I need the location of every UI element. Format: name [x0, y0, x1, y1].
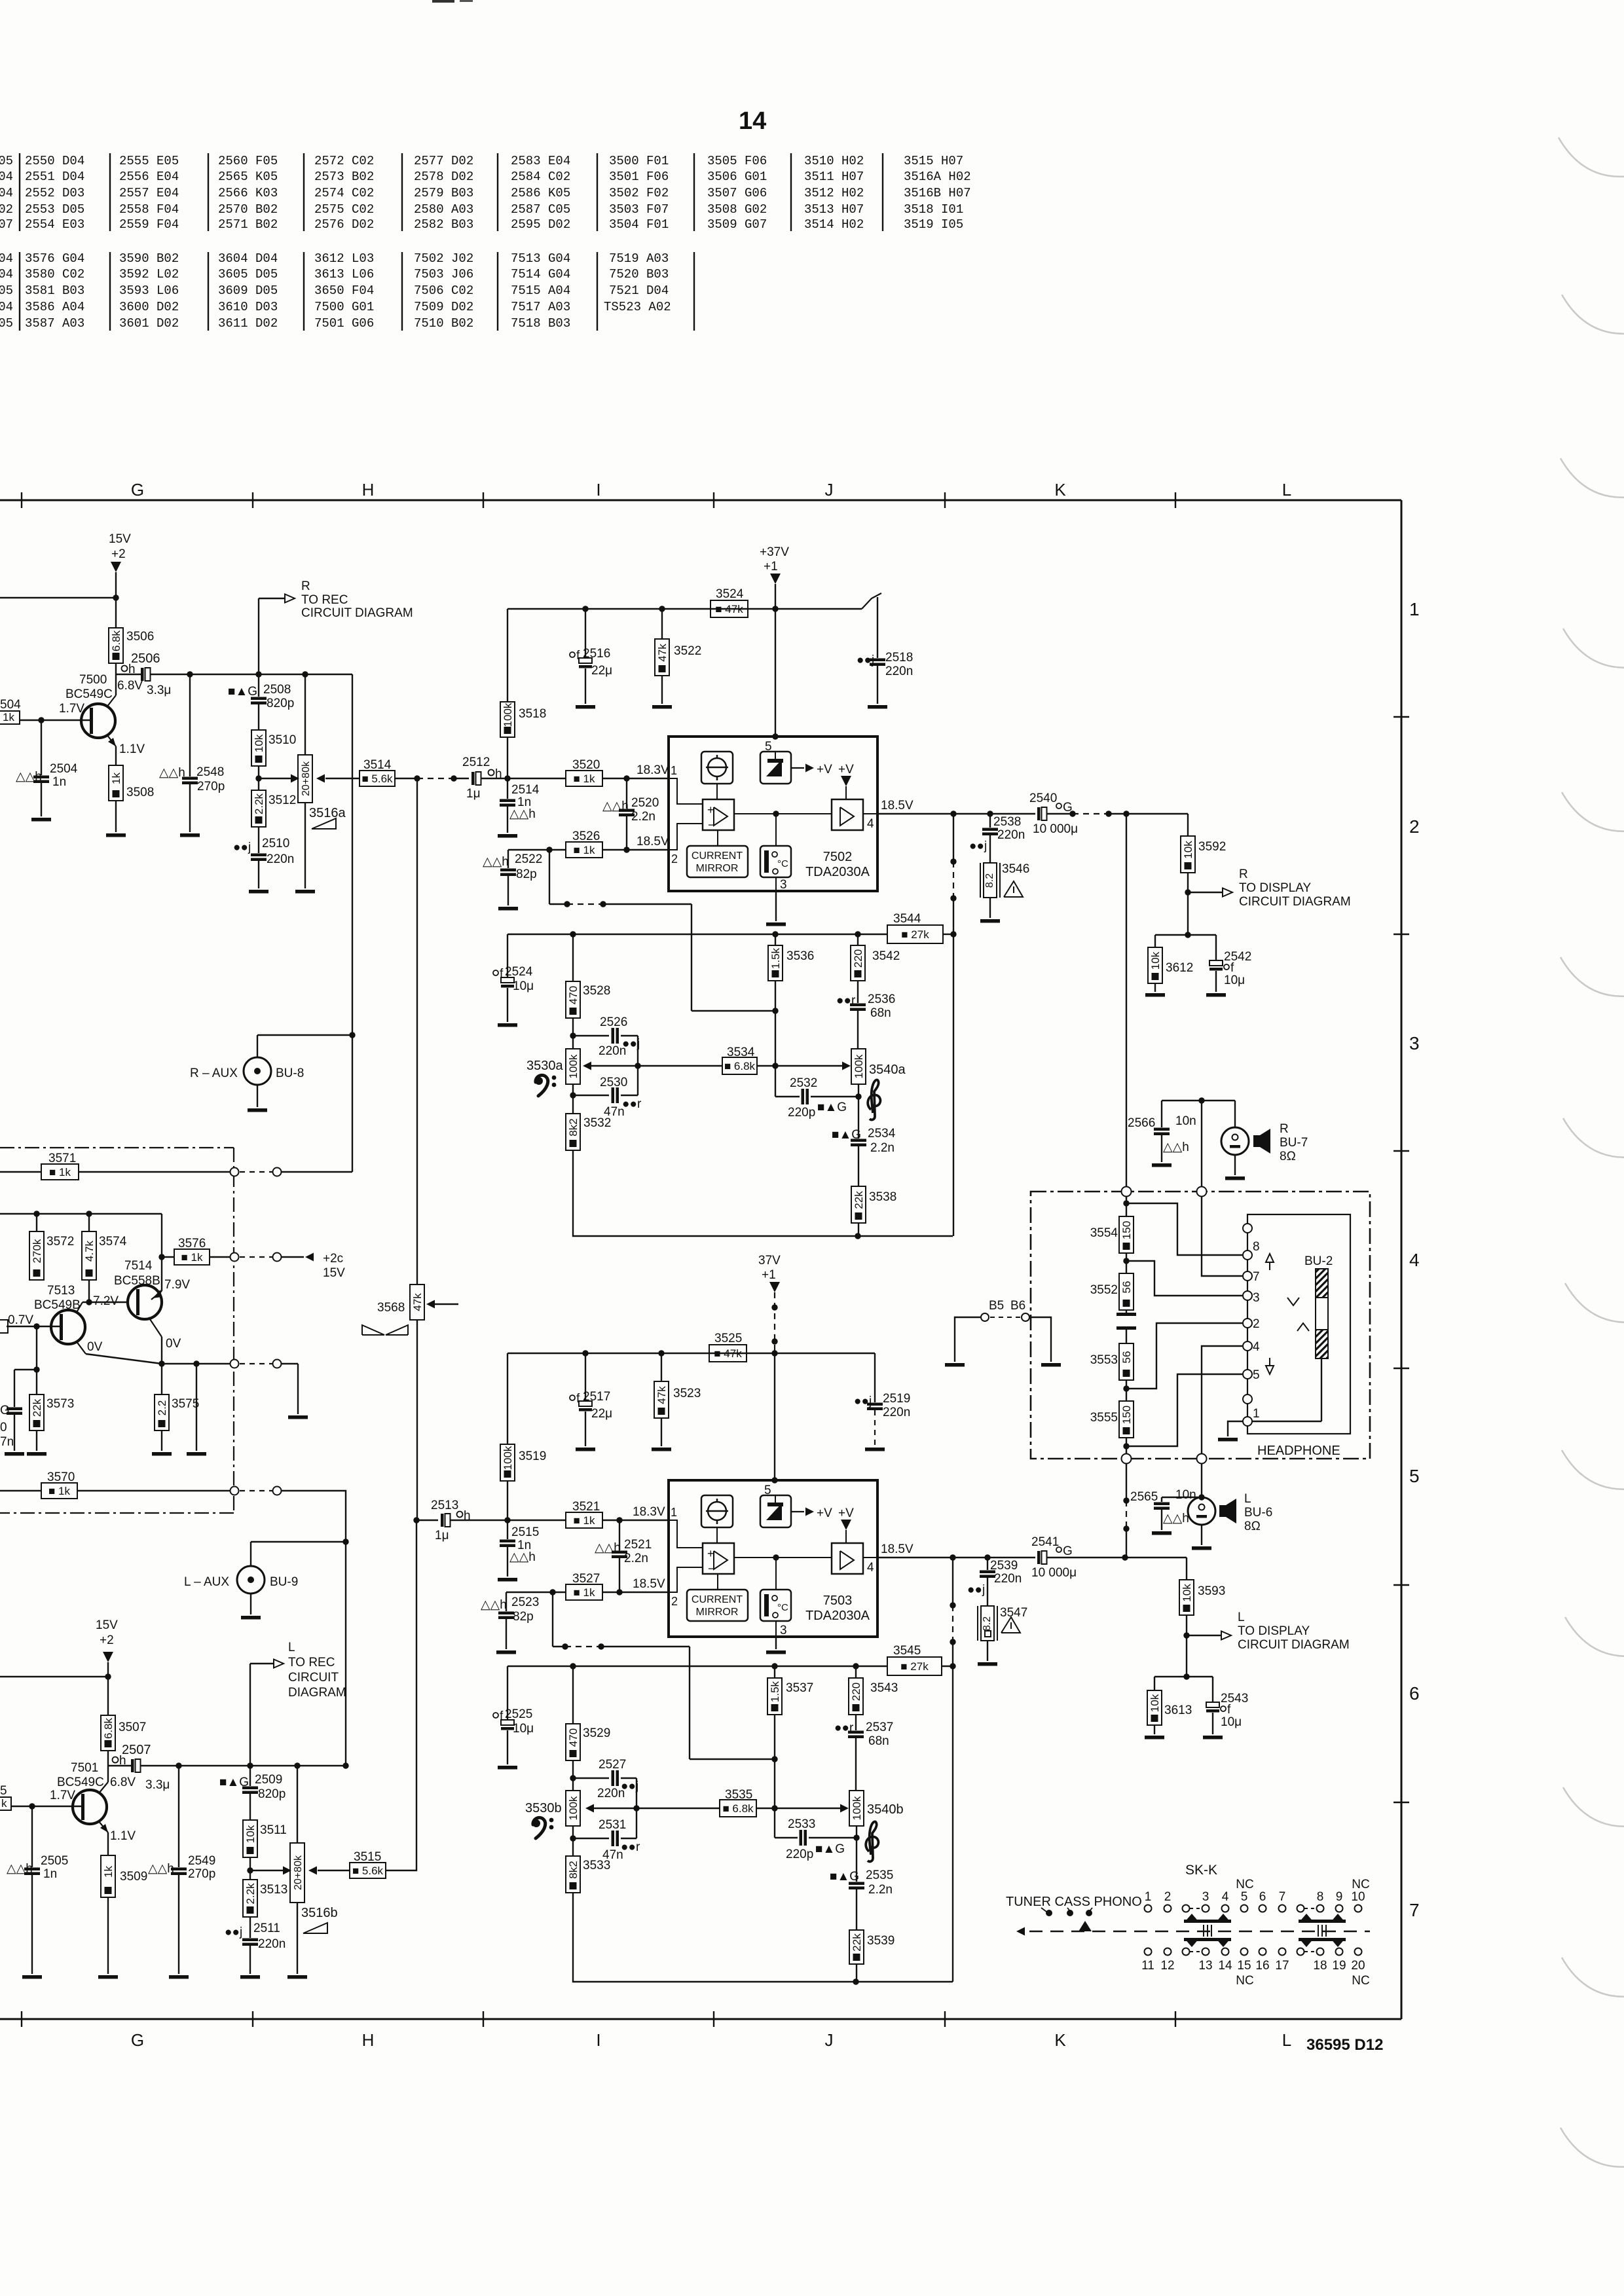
switch contacts 3576 row / +2c 15V: [231, 1253, 239, 1262]
svg-text:L: L: [1282, 480, 1291, 500]
arrow R to rec circuit diagram: [258, 598, 259, 674]
svg-text:10k: 10k: [1181, 1584, 1193, 1602]
svg-text:3519 I05: 3519 I05: [904, 217, 963, 232]
svg-text:L – AUX: L – AUX: [184, 1575, 229, 1589]
resistor 3612: [1154, 935, 1156, 947]
speaker icon R: [1253, 1135, 1260, 1147]
capacitor 2539: [987, 1558, 988, 1570]
svg-text:3538: 3538: [869, 1190, 896, 1204]
svg-text:3516a: 3516a: [309, 806, 346, 820]
svg-text:DIAGRAM: DIAGRAM: [288, 1686, 346, 1700]
wire emitter 7501: [98, 1821, 108, 1832]
svg-text:G: G: [0, 1404, 10, 1417]
svg-text:2550 D04: 2550 D04: [25, 154, 84, 168]
capacitor 2518 220n: [877, 597, 878, 658]
svg-text:3516A H02: 3516A H02: [904, 170, 971, 184]
svg-text:2583 E04: 2583 E04: [511, 154, 570, 168]
svg-text:3508 G02: 3508 G02: [707, 202, 767, 217]
svg-text:BU-6: BU-6: [1244, 1506, 1272, 1520]
resistor 3593: [1186, 1558, 1187, 1580]
capacitor 2540 10000u: [1037, 807, 1041, 820]
svg-text:+1: +1: [764, 560, 778, 574]
svg-text:■▲G: ■▲G: [817, 1101, 847, 1114]
svg-text:17: 17: [1275, 1959, 1289, 1973]
svg-text:6: 6: [1259, 1890, 1266, 1904]
wire 15V rail left: [0, 597, 116, 598]
svg-text:7501: 7501: [71, 1761, 98, 1775]
svg-text:3514: 3514: [363, 758, 392, 772]
svg-text:TUNER CASS PHONO: TUNER CASS PHONO: [1006, 1895, 1142, 1909]
svg-text:7503 J06: 7503 J06: [414, 267, 473, 282]
node 3553/3555: [1126, 1380, 1127, 1401]
wire 3535 to 3540b with arrow: [756, 1808, 775, 1809]
svg-text:△△h: △△h: [483, 855, 509, 869]
resistor 3571 1k: [0, 1171, 41, 1173]
svg-text:3592: 3592: [1198, 840, 1226, 854]
svg-text:°C: °C: [777, 1602, 788, 1613]
svg-text:3576: 3576: [178, 1237, 206, 1250]
svg-text:8.2: 8.2: [984, 873, 995, 888]
svg-text:2557 E04: 2557 E04: [119, 186, 179, 200]
svg-text:3605 D05: 3605 D05: [218, 267, 278, 282]
long vertical from R preamp to BU-8: [352, 674, 353, 1172]
svg-text:220: 220: [850, 1683, 862, 1701]
svg-text:BU-9: BU-9: [270, 1575, 298, 1589]
svg-text:2506: 2506: [131, 651, 160, 666]
connector BU-8 R-AUX: [257, 1035, 258, 1057]
wire contact 1 to plug sleeve and ground: [1252, 1421, 1321, 1422]
jack contact circles: [1243, 1224, 1252, 1233]
potentiometer 3540a treble: [851, 1049, 866, 1084]
ramp symbol 3516a: [312, 818, 336, 829]
svg-text:●●j: ●●j: [967, 1583, 985, 1597]
svg-text:2579 B03: 2579 B03: [414, 186, 473, 200]
svg-text:22k: 22k: [853, 1191, 865, 1209]
svg-text:2526: 2526: [600, 1015, 627, 1029]
svg-text:3524: 3524: [716, 587, 744, 601]
svg-text:■▲G: ■▲G: [830, 1870, 859, 1884]
node 2565/BU-6: [1201, 1463, 1202, 1497]
svg-text:L: L: [1238, 1611, 1245, 1624]
svg-text:3516B H07: 3516B H07: [904, 186, 971, 200]
svg-text:2541: 2541: [1031, 1535, 1059, 1549]
svg-text:0: 0: [0, 1421, 7, 1434]
svg-text:820p: 820p: [267, 697, 294, 710]
supply rail 47k row (L): [507, 1353, 875, 1354]
box contacts top/bottom: [1122, 1187, 1132, 1197]
capacitor 2516 22u: [585, 609, 586, 658]
svg-text:2584 C02: 2584 C02: [511, 170, 570, 184]
svg-text:1.1V: 1.1V: [119, 742, 145, 756]
svg-text:7502: 7502: [823, 850, 853, 864]
svg-text:+V: +V: [838, 1506, 854, 1520]
svg-text:1.5k: 1.5k: [769, 1681, 781, 1702]
svg-text:R: R: [301, 579, 310, 593]
svg-text:7513: 7513: [47, 1284, 75, 1298]
svg-text:3600 D02: 3600 D02: [119, 300, 179, 314]
svg-text:15V: 15V: [96, 1618, 118, 1632]
transistor 7500 BC549C: [81, 704, 115, 738]
svg-text:3510 H02: 3510 H02: [804, 154, 864, 168]
svg-text:+V: +V: [838, 763, 854, 776]
wire +37V to pin 5: [775, 609, 776, 737]
svg-text:R: R: [1280, 1122, 1289, 1136]
svg-text:△△h: △△h: [509, 807, 536, 821]
svg-text:●●j: ●●j: [969, 839, 987, 853]
svg-text:2576 D02: 2576 D02: [314, 217, 374, 232]
switch contacts 3570 row: [231, 1487, 239, 1495]
capacitor 2520: [626, 778, 627, 809]
svg-text:3506 G01: 3506 G01: [707, 170, 767, 184]
svg-text:2571 B02: 2571 B02: [218, 217, 278, 232]
svg-text:3519: 3519: [519, 1449, 546, 1463]
jack switch A mark: [1297, 1323, 1309, 1331]
svg-text:2.2n: 2.2n: [631, 810, 655, 824]
svg-text:1μ: 1μ: [466, 787, 481, 801]
svg-text:100k: 100k: [567, 1796, 580, 1820]
svg-text:2578 D02: 2578 D02: [414, 170, 473, 184]
svg-text:2511: 2511: [253, 1922, 280, 1935]
svg-text:3511 H07: 3511 H07: [804, 170, 864, 184]
svg-text:+2: +2: [111, 547, 126, 561]
resistor 3523: [661, 1353, 662, 1381]
svg-text:3503 F07: 3503 F07: [609, 202, 669, 217]
svg-text:+1: +1: [762, 1268, 776, 1282]
svg-text:2575 C02: 2575 C02: [314, 202, 374, 217]
svg-text:2520: 2520: [631, 796, 659, 810]
svg-text:2559 F04: 2559 F04: [119, 217, 179, 232]
svg-text:2556 E04: 2556 E04: [119, 170, 179, 184]
svg-text:10μ: 10μ: [513, 979, 534, 993]
svg-text:3508: 3508: [126, 786, 154, 799]
svg-text:220n: 220n: [883, 1406, 910, 1419]
svg-text:2507: 2507: [122, 1743, 151, 1757]
svg-text:2552 D03: 2552 D03: [25, 186, 84, 200]
svg-text:22μ: 22μ: [591, 1407, 612, 1421]
svg-text:2532: 2532: [790, 1076, 817, 1090]
svg-text:3501 F06: 3501 F06: [609, 170, 669, 184]
resistor 3511: [243, 1820, 257, 1857]
svg-text:R – AUX: R – AUX: [190, 1066, 238, 1080]
svg-text:220n: 220n: [885, 665, 913, 678]
resistor 3576 1k: [158, 1254, 164, 1260]
wire main R preamp node: [150, 674, 352, 675]
svg-text:3539: 3539: [867, 1934, 895, 1948]
svg-text:2518: 2518: [885, 651, 913, 665]
switch contacts top row: [1145, 1905, 1152, 1912]
svg-text:2: 2: [671, 1595, 678, 1608]
svg-text:■▲G: ■▲G: [219, 1776, 249, 1789]
svg-text:1: 1: [671, 1506, 677, 1519]
svg-text:8k2: 8k2: [567, 1861, 580, 1878]
svg-text:3513: 3513: [260, 1883, 287, 1897]
svg-text:3500 F01: 3500 F01: [609, 154, 669, 168]
svg-text:B6: B6: [1010, 1299, 1025, 1313]
svg-text:82p: 82p: [513, 1610, 534, 1624]
svg-text:3511: 3511: [260, 1823, 287, 1837]
svg-text:8.2: 8.2: [982, 1616, 993, 1631]
schematic border frame: [0, 500, 1401, 501]
capacitor 2505: [31, 1806, 33, 1867]
resistor 3574 4.7k: [88, 1213, 90, 1231]
svg-text:1: 1: [1253, 1407, 1260, 1421]
svg-text:18: 18: [1313, 1959, 1327, 1973]
rail continuation hook: [862, 593, 881, 609]
resistor 3528 470: [572, 934, 574, 981]
node 3540a wiper bottom: [858, 1084, 859, 1097]
center break bars: [1126, 1310, 1127, 1313]
resistor 3533 8k2: [572, 1838, 574, 1856]
resistor 3570 1k: [0, 1490, 41, 1491]
arrow L to display circuit diagram: [1187, 1635, 1221, 1636]
svg-text:●●r: ●●r: [836, 994, 856, 1008]
svg-text:1.1V: 1.1V: [110, 1829, 136, 1843]
svg-text:3509: 3509: [120, 1870, 147, 1884]
svg-text:8: 8: [1253, 1240, 1260, 1254]
svg-text:68n: 68n: [868, 1734, 889, 1748]
wire base 7500: [20, 720, 90, 721]
svg-text:△△h: △△h: [148, 1862, 174, 1876]
vertical feedback link R (dashed): [953, 814, 954, 862]
svg-text:3613: 3613: [1164, 1704, 1192, 1717]
arrow L to rec circuit diagram: [249, 1664, 251, 1766]
resistor 3572 270k: [36, 1213, 37, 1231]
svg-text:3568: 3568: [377, 1301, 405, 1315]
resistor 3513: [243, 1880, 257, 1917]
wire 3520 to pin1: [602, 778, 669, 779]
svg-text:2555 E05: 2555 E05: [119, 154, 179, 168]
svg-text:°C: °C: [777, 858, 788, 869]
svg-text:3.3μ: 3.3μ: [145, 1778, 170, 1792]
svg-text:3530b: 3530b: [525, 1801, 562, 1815]
capacitor 2511: [249, 1917, 251, 1938]
R speaker feed vertical: [1126, 814, 1127, 1192]
svg-text:3515: 3515: [354, 1850, 381, 1864]
svg-text:7510 B02: 7510 B02: [414, 316, 473, 331]
plug direction arrows: [1266, 1254, 1274, 1262]
svg-text:3610 D03: 3610 D03: [218, 300, 278, 314]
svg-text:SK-K: SK-K: [1185, 1863, 1217, 1878]
switch wiper group 8-9: [1299, 1920, 1346, 1923]
svg-text:●●j: ●●j: [233, 841, 251, 854]
resistor 3532 8k2: [572, 1095, 574, 1114]
svg-text:CIRCUIT: CIRCUIT: [288, 1671, 339, 1685]
svg-text:3546: 3546: [1002, 862, 1029, 876]
resistor 3508: [109, 765, 123, 801]
svg-text:TS523 A02: TS523 A02: [604, 300, 671, 314]
svg-text:2: 2: [1164, 1890, 1172, 1904]
svg-text:0V: 0V: [166, 1337, 181, 1351]
svg-text:L: L: [288, 1641, 295, 1654]
resistor 3535 6.8k: [637, 1808, 720, 1809]
svg-text:■ 27k: ■ 27k: [900, 1660, 929, 1673]
svg-text:3518 I01: 3518 I01: [904, 202, 963, 217]
svg-text:504: 504: [0, 698, 21, 712]
wire 37V to pin 5 (L): [774, 1353, 775, 1480]
svg-text:2577 D02: 2577 D02: [414, 154, 473, 168]
svg-text:7.2V: 7.2V: [93, 1294, 119, 1308]
svg-text:CIRCUIT DIAGRAM: CIRCUIT DIAGRAM: [1238, 1638, 1350, 1652]
resistor 3507: [101, 1715, 115, 1751]
svg-text:MIRROR: MIRROR: [696, 863, 739, 874]
svg-text:f: f: [1227, 1703, 1231, 1717]
ground drop emitter node: [196, 1364, 197, 1451]
wire emitter 7513 collector 7514: [76, 1341, 86, 1354]
svg-text:3552: 3552: [1090, 1283, 1118, 1297]
svg-text:150: 150: [1120, 1221, 1133, 1239]
resistor 3510: [251, 730, 266, 766]
capacitor 2527 220n: [573, 1777, 609, 1779]
svg-text:100k: 100k: [853, 1054, 865, 1078]
resistor 3525: [709, 1345, 747, 1362]
transistor 7513 BC549B: [51, 1310, 85, 1344]
svg-text:■▲G: ■▲G: [228, 685, 257, 699]
svg-text:△△h: △△h: [602, 799, 629, 813]
svg-text:2565 K05: 2565 K05: [218, 170, 278, 184]
svg-text:0.7V: 0.7V: [8, 1313, 33, 1327]
svg-text:7521 D04: 7521 D04: [609, 283, 669, 298]
resistor 3544 27k: [887, 925, 943, 943]
svg-text:3514 H02: 3514 H02: [804, 217, 864, 232]
transistor 7501 BC549C: [73, 1790, 107, 1824]
capacitor 2549: [178, 1766, 179, 1867]
svg-text:f: f: [500, 1709, 504, 1723]
connector BU-9 L-AUX: [250, 1542, 251, 1565]
svg-text:■▲G: ■▲G: [815, 1842, 845, 1856]
capacitor 2507 series: [131, 1759, 134, 1772]
L speaker feed vertical (dashed): [1126, 1463, 1127, 1501]
scan marks top edge: [432, 0, 454, 3]
svg-text:22k: 22k: [31, 1398, 43, 1417]
capacitor 2515: [507, 1520, 508, 1539]
svg-text:3512 H02: 3512 H02: [804, 186, 864, 200]
svg-text:1.5k: 1.5k: [769, 947, 782, 969]
svg-text:3: 3: [780, 1624, 787, 1637]
svg-text:3507: 3507: [119, 1721, 146, 1734]
svg-text:100k: 100k: [851, 1796, 863, 1820]
svg-text:7503: 7503: [823, 1594, 853, 1608]
svg-text:2534: 2534: [868, 1127, 896, 1140]
svg-text:18.5V: 18.5V: [633, 1577, 665, 1591]
resistor 3514: [360, 771, 395, 786]
svg-text:220n: 220n: [997, 828, 1025, 842]
svg-text:0V: 0V: [87, 1340, 103, 1354]
svg-text:3611 D02: 3611 D02: [218, 316, 278, 331]
svg-text:4: 4: [1253, 1340, 1260, 1354]
svg-text:J: J: [825, 2030, 834, 2050]
svg-text:2566 K03: 2566 K03: [218, 186, 278, 200]
wire contact 2 branch: [1126, 1323, 1242, 1389]
svg-text:3540b: 3540b: [867, 1802, 904, 1817]
svg-text:7513 G04: 7513 G04: [511, 251, 570, 266]
svg-text:8Ω: 8Ω: [1244, 1520, 1261, 1533]
svg-text:■ 5.6k: ■ 5.6k: [361, 773, 393, 785]
svg-text:CURRENT: CURRENT: [692, 850, 743, 862]
svg-text:+2c: +2c: [323, 1252, 343, 1266]
svg-text:CURRENT: CURRENT: [692, 1594, 743, 1605]
svg-text:3575: 3575: [172, 1397, 199, 1411]
svg-text:3512: 3512: [268, 793, 296, 807]
svg-text:k: k: [1, 1797, 7, 1810]
svg-text:1.7V: 1.7V: [50, 1789, 75, 1802]
svg-text:△△h: △△h: [595, 1541, 621, 1555]
svg-text:3528: 3528: [583, 984, 610, 998]
resistor 3545 27k: [887, 1657, 942, 1675]
wire emitter 7514 arrow: [153, 1290, 162, 1298]
transistor 7514 BC558B: [128, 1285, 162, 1319]
capacitor 2525 10u: [507, 1666, 508, 1720]
wire 3532 to bottom rail R: [573, 1150, 953, 1236]
svg-text:I: I: [596, 2030, 600, 2050]
svg-text:220n: 220n: [258, 1937, 286, 1951]
svg-text:1k: 1k: [3, 711, 14, 723]
svg-text:3529: 3529: [583, 1726, 610, 1740]
resistor 3552 56: [1119, 1273, 1134, 1310]
svg-text:270p: 270p: [188, 1867, 215, 1881]
svg-text:04: 04: [0, 170, 13, 184]
svg-text:2570 B02: 2570 B02: [218, 202, 278, 217]
svg-text:04: 04: [0, 186, 13, 200]
svg-text:■ 6.8k: ■ 6.8k: [722, 1802, 754, 1815]
capacitor 2533 220p: [774, 1808, 775, 1838]
svg-text:2573 B02: 2573 B02: [314, 170, 374, 184]
capacitor 2506 series: [141, 668, 144, 681]
svg-text:7517 A03: 7517 A03: [511, 300, 570, 314]
svg-text:2510: 2510: [262, 837, 289, 850]
svg-text:6.8V: 6.8V: [110, 1776, 136, 1789]
svg-text:3: 3: [1409, 1033, 1420, 1053]
svg-text:△△h: △△h: [7, 1862, 33, 1876]
svg-text:3544: 3544: [893, 912, 921, 926]
feedback rail L: [507, 1666, 887, 1667]
capacitor 2536 68n: [857, 981, 858, 1003]
svg-text:2504: 2504: [50, 762, 78, 776]
resistor 3553 56: [1119, 1343, 1134, 1380]
svg-text:2540: 2540: [1029, 792, 1057, 805]
feedback rail R: [507, 934, 887, 935]
svg-text:2531: 2531: [599, 1818, 626, 1832]
svg-text:H: H: [362, 480, 375, 500]
svg-text:2.2n: 2.2n: [624, 1552, 648, 1565]
svg-text:3593 L06: 3593 L06: [119, 283, 179, 298]
svg-text:7506 C02: 7506 C02: [414, 283, 473, 298]
wire 3526 to pin2: [602, 849, 669, 850]
resistor 3573 22k: [36, 1326, 37, 1394]
svg-text:11: 11: [1141, 1959, 1154, 1973]
svg-text:2549: 2549: [188, 1854, 215, 1868]
svg-text:2512: 2512: [462, 756, 490, 769]
svg-text:3581 B03: 3581 B03: [25, 283, 84, 298]
svg-text:2558 F04: 2558 F04: [119, 202, 179, 217]
svg-text:37V: 37V: [758, 1254, 781, 1267]
resistor 3504 (cut at page edge): [0, 711, 20, 724]
wiper arrow right 3516a from 3514: [325, 778, 360, 779]
svg-text:3510: 3510: [268, 733, 296, 747]
resistor 3505 (cut at page edge): [0, 1797, 11, 1810]
capacitor 2521: [619, 1520, 620, 1550]
resistor 3568 47k channel link: [416, 778, 418, 1285]
svg-text:+: +: [707, 1547, 714, 1560]
resistor 3534 6.8k: [638, 1065, 722, 1066]
svg-text:2539: 2539: [990, 1559, 1018, 1573]
svg-text:●●r: ●●r: [622, 1097, 642, 1111]
svg-text:R: R: [1239, 867, 1248, 881]
svg-text:3553: 3553: [1090, 1353, 1118, 1367]
svg-text:BC549C: BC549C: [65, 687, 113, 701]
capacitor 2530 47n: [621, 1095, 638, 1096]
resistor fragment left edge (base feed): [0, 1320, 8, 1333]
svg-text:10μ: 10μ: [513, 1722, 534, 1736]
